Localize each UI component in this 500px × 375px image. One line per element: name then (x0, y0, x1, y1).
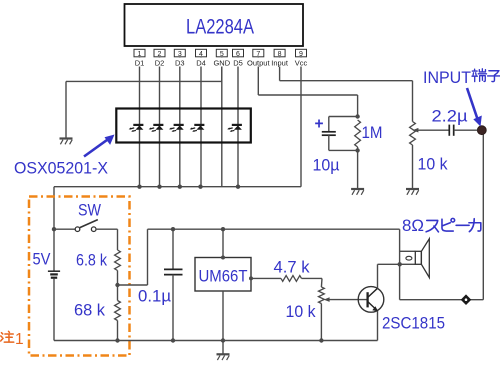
junction U2 top pin (221, 256, 225, 260)
capacitor C2 0.1u (164, 268, 183, 270)
junction bus (178, 185, 182, 189)
potentiometer VR1 10k (410, 122, 416, 146)
wire switch right (96, 228, 118, 230)
svg-text:UM66T: UM66T (199, 267, 248, 286)
svg-text:D1: D1 (135, 58, 145, 67)
label kanji 子 (488, 71, 500, 82)
wire Input to pot (412, 81, 414, 122)
svg-text:D4: D4 (196, 58, 206, 67)
wire battery top (53, 229, 55, 270)
wire VR2 bottom (320, 304, 322, 341)
pin 5 box (216, 49, 227, 57)
wire rail to speaker (399, 229, 401, 300)
input terminal dot (477, 126, 486, 135)
LED D2 (153, 124, 163, 126)
svg-text:0.1µ: 0.1µ (138, 288, 171, 306)
wire D5 vertical (221, 57, 223, 187)
junction bus/VR2 (319, 338, 323, 342)
svg-text:6.8 k: 6.8 k (76, 252, 108, 270)
resistor R4 1M (355, 120, 361, 147)
svg-text:7: 7 (256, 51, 260, 58)
switch SW lever (80, 220, 98, 228)
switch SW contact right (91, 227, 96, 232)
svg-text:INPUT: INPUT (423, 68, 471, 87)
IC U1 LA2284A body (125, 4, 304, 46)
svg-text:D3: D3 (175, 58, 185, 67)
svg-text:10 k: 10 k (418, 156, 449, 174)
label katakana pi (442, 218, 455, 231)
wire D4 vertical (200, 57, 202, 187)
wire GND left vertical (65, 81, 67, 138)
VR2 wiper (328, 299, 368, 301)
wire speaker to jack (400, 299, 484, 301)
wire Output down (257, 57, 259, 95)
wire tap down (117, 285, 119, 301)
ground G3 (406, 188, 419, 190)
svg-text:3: 3 (178, 51, 182, 58)
wire R2 to bus (117, 321, 119, 341)
svg-text:2.2µ: 2.2µ (432, 108, 469, 126)
junction speaker bottom (398, 262, 402, 266)
wire battery bottom (53, 279, 55, 341)
label katakana su (426, 220, 438, 231)
wire Output to node (357, 95, 359, 117)
pin 2 box (154, 49, 165, 57)
LED D1 (133, 124, 143, 126)
wire C2 top (172, 229, 174, 269)
svg-text:10µ: 10µ (313, 157, 340, 175)
wire anode bus (54, 186, 301, 188)
wire R3 to pot (302, 277, 323, 279)
pin 9 box (296, 49, 307, 57)
junction rail/C2 (171, 227, 175, 231)
resistor R1 6.8k (115, 250, 121, 271)
wire U2 out (251, 277, 281, 279)
wire switch left (54, 228, 75, 230)
svg-text:LA2284A: LA2284A (186, 15, 255, 39)
wire C2 bottom (172, 275, 174, 341)
svg-text:6: 6 (236, 51, 240, 58)
battery BT1 5V (48, 270, 60, 272)
pin 1 box (134, 49, 145, 57)
ground G2 (217, 353, 230, 355)
svg-text:SW: SW (78, 202, 101, 220)
svg-text:Input: Input (271, 58, 289, 67)
svg-text:1: 1 (15, 331, 24, 348)
capacitor C3 2.2u (448, 125, 450, 136)
svg-text:Output: Output (247, 58, 270, 67)
label kanji 端 (472, 69, 487, 82)
wire Input down (279, 57, 281, 81)
junction divider tap (115, 283, 119, 287)
wire bus left drop (53, 187, 55, 230)
capacitor C1 10u (322, 131, 336, 133)
junction U2 out pin (249, 276, 253, 280)
wire jack vertical (482, 134, 484, 300)
junction rail/U2 (221, 227, 225, 231)
wire GND pin5 down (221, 57, 223, 82)
label katakana long bar (456, 224, 469, 226)
svg-text:9: 9 (299, 51, 303, 58)
pin 3 box (174, 49, 185, 57)
junction bus (236, 185, 240, 189)
callout arrow OSX05201-X (84, 138, 110, 157)
svg-text:2SC1815: 2SC1815 (382, 315, 445, 333)
junction bus (137, 185, 141, 189)
wire D1 vertical (139, 57, 141, 187)
label katakana ka (469, 219, 481, 232)
svg-text:8: 8 (278, 51, 282, 58)
wire D3 vertical (179, 57, 181, 187)
svg-text:1M: 1M (362, 124, 383, 142)
junction bus/U2 (221, 338, 225, 342)
junction bus/R2 (115, 338, 119, 342)
junction battery/switch (52, 227, 56, 231)
svg-text:D5: D5 (233, 58, 243, 67)
wire melody rail (148, 228, 400, 230)
LED D3 (174, 124, 184, 126)
resistor R2 68k (115, 301, 121, 321)
pin 4 box (196, 49, 207, 57)
pin 7 box (253, 49, 264, 57)
junction bus (198, 185, 202, 189)
wire Q1 collector (377, 264, 379, 288)
wire D5 vertical (237, 57, 239, 187)
svg-text:8Ω: 8Ω (402, 216, 424, 235)
svg-text:1: 1 (138, 51, 142, 58)
wire VR1 bottom (412, 145, 414, 189)
speaker SP1 coil (406, 256, 412, 260)
LED D4 (194, 124, 204, 126)
ground G4 (351, 188, 364, 190)
wire D2 vertical (159, 57, 161, 187)
pin labels row (132, 58, 148, 67)
junction R4 bottom (355, 148, 359, 152)
LED D5 (232, 124, 242, 126)
Q1 emitter stroke (368, 302, 378, 311)
svg-text:68 k: 68 k (74, 302, 106, 320)
wire Q1 emitter (377, 311, 379, 341)
speaker SP1 body (415, 251, 421, 264)
wire R4 bottom (357, 147, 359, 189)
IC U2 UM66T box (195, 258, 251, 292)
svg-text:+: + (315, 116, 324, 133)
svg-text:4.7 k: 4.7 k (274, 259, 311, 277)
wire GND horizontal (66, 80, 222, 82)
VR1 wiper (415, 129, 449, 131)
junction bus/C2 (171, 338, 175, 342)
ground G1 (60, 137, 73, 139)
svg-text:GND: GND (213, 58, 230, 67)
svg-text:5V: 5V (33, 251, 51, 269)
pin 8 box (274, 49, 285, 57)
speaker SP1 terminals (400, 250, 416, 252)
wire U2 ground (222, 291, 224, 341)
svg-text:10 k: 10 k (286, 303, 317, 321)
potentiometer VR2 10k (319, 287, 325, 304)
wire node to C1 (329, 116, 358, 118)
LED module OSX05201-X box (116, 109, 251, 143)
wire R1 to tap (117, 271, 119, 286)
svg-text:2: 2 (158, 51, 162, 58)
wire ground bus (54, 340, 378, 342)
junction bus (157, 185, 161, 189)
connector diamond (461, 294, 472, 305)
transistor Q1 2SC1815 circle (358, 287, 384, 313)
resistor R3 4.7k (281, 276, 302, 282)
label kanji 注 (1, 331, 14, 342)
svg-text:D2: D2 (155, 58, 165, 67)
svg-text:OSX05201-X: OSX05201-X (14, 160, 108, 178)
wire C1 bottom (328, 135, 330, 150)
wire C3 to terminal (454, 129, 478, 131)
Q1 collector stroke (368, 288, 378, 297)
wire Vcc down (300, 57, 302, 187)
junction detector node (355, 114, 359, 118)
Q1 base bar (366, 292, 368, 307)
annotation box (note1) (29, 197, 130, 356)
svg-text:Vcc: Vcc (295, 58, 308, 67)
pin 6 box (233, 49, 244, 57)
svg-text:4: 4 (199, 51, 203, 58)
wire U2 supply (222, 229, 224, 257)
wire tap right (118, 284, 148, 286)
switch SW contact left (75, 227, 80, 232)
callout arrow INPUT (467, 88, 478, 119)
svg-text:5: 5 (220, 51, 224, 58)
wire bus ground stub (222, 341, 224, 355)
